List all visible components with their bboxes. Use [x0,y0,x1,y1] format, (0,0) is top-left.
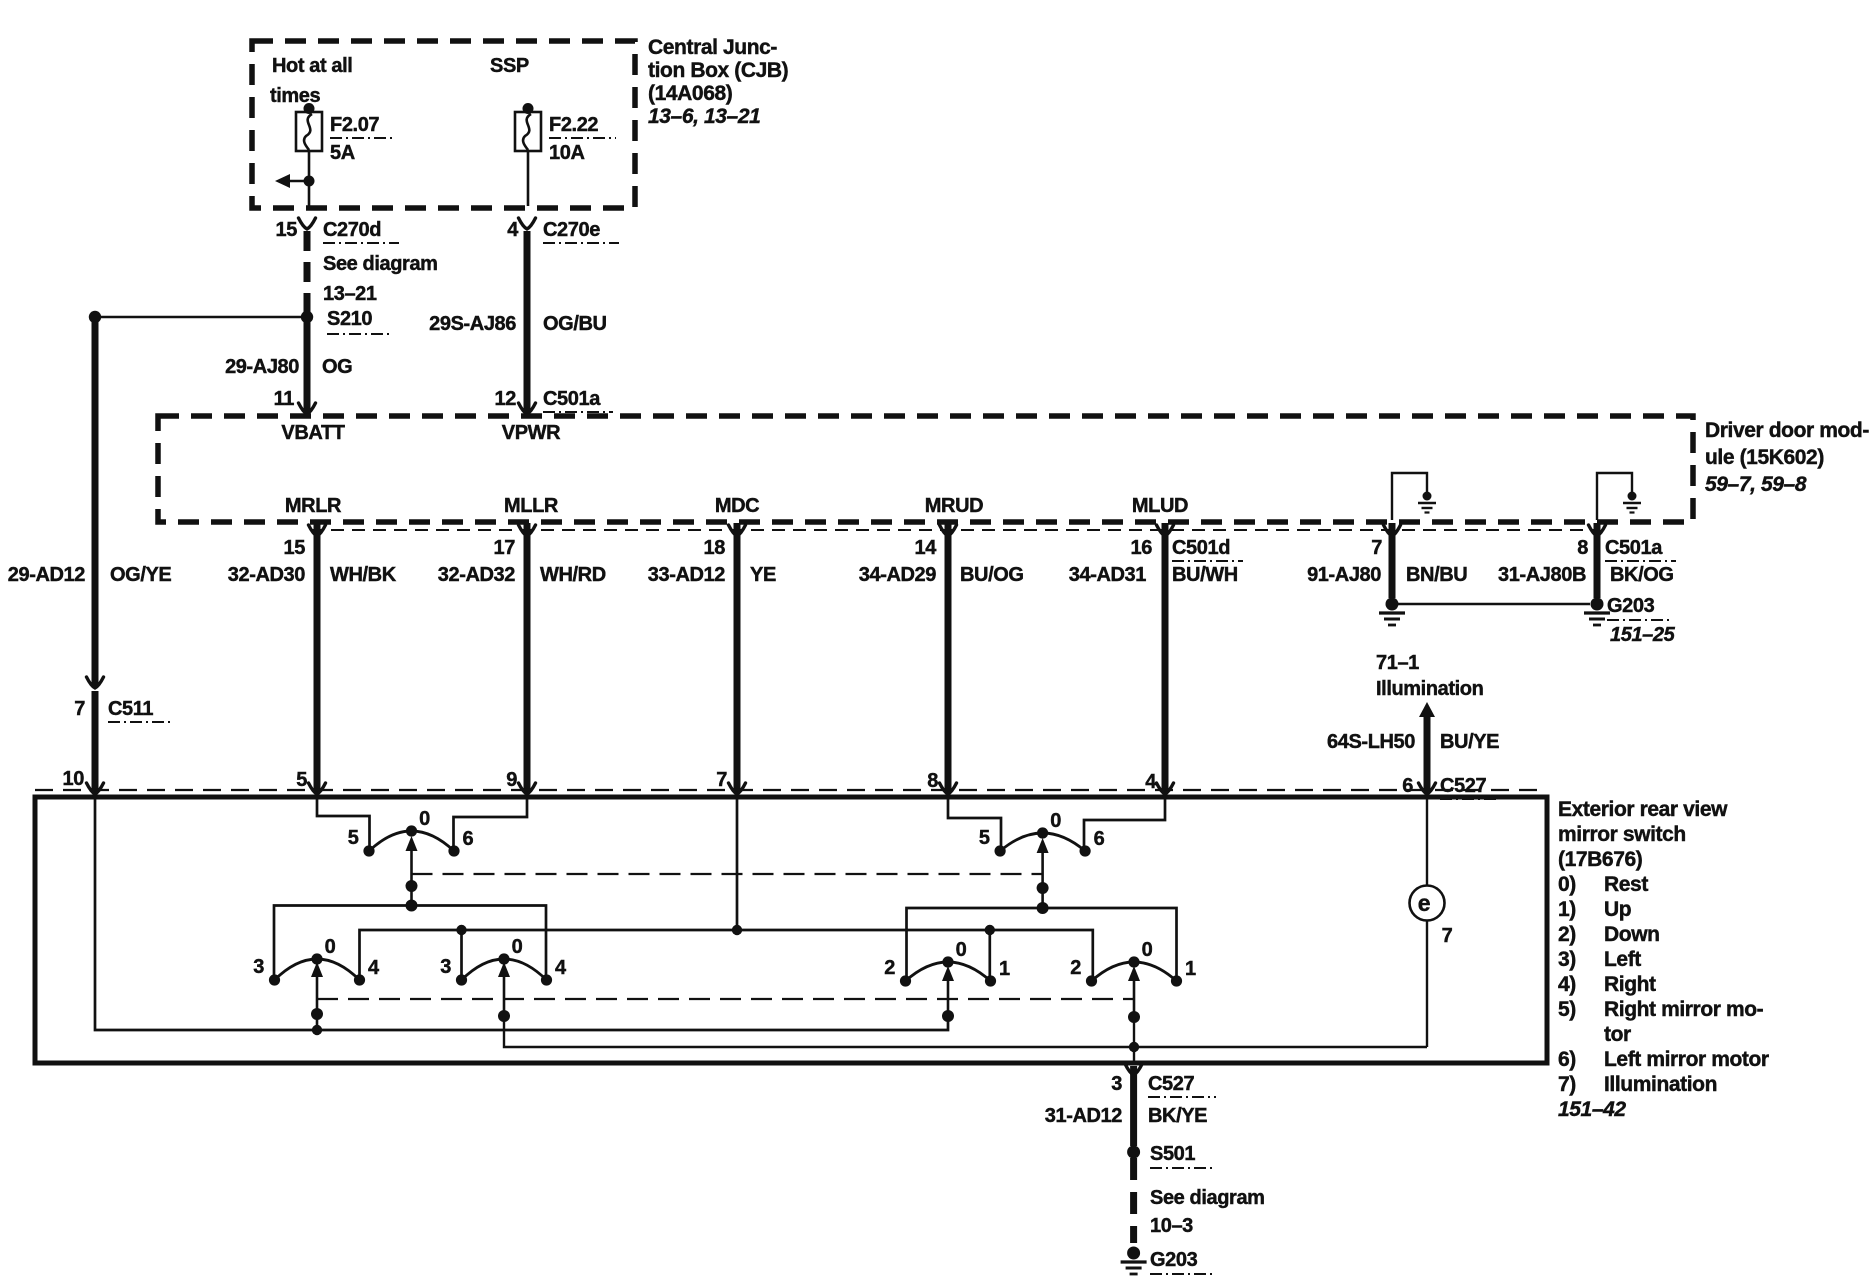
splice S501 [1127,1146,1140,1159]
label G203 bottom [1150,1249,1216,1274]
label Driver door module 15K602 [1705,419,1869,496]
svg-text:151–42: 151–42 [1558,1098,1626,1121]
svg-text:29-AJ80: 29-AJ80 [225,356,299,378]
ground symbol inside module right [1623,492,1641,513]
svg-text:3: 3 [440,956,451,978]
svg-text:59–7, 59–8: 59–7, 59–8 [1705,473,1807,496]
svg-text:BU/YE: BU/YE [1440,731,1499,753]
switch pin 9 [506,769,535,794]
module pin label VPWR [502,422,561,444]
pin 11 VBATT entry [274,388,316,414]
svg-text:BK/YE: BK/YE [1148,1105,1207,1127]
pivot node switch B [498,1010,510,1022]
svg-text:32-AD30: 32-AD30 [228,564,306,586]
connector C270d pin 15 [276,218,399,243]
pin 6 connector C527 [1402,775,1500,799]
svg-text:0: 0 [956,939,967,961]
node bus to switch C contact 1 [985,925,995,935]
pivot node right selector [1037,882,1049,894]
switch pin 6 [1419,783,1436,794]
svg-text:Driver door mod-: Driver door mod- [1705,419,1869,442]
switch pin 5 [296,769,325,794]
node bus to MDC wire [732,925,742,935]
svg-text:8: 8 [1577,537,1588,559]
label 32-AD30 WH/BK [228,564,397,586]
wire MRLR pin15 to switch pin5 [314,523,321,793]
bracket right mirror pair [907,908,1177,980]
wire fuse F2.22 down [527,151,530,206]
svg-text:S501: S501 [1150,1143,1195,1165]
wire pin8 to ground [1594,523,1601,598]
svg-text:(17B676): (17B676) [1558,848,1642,871]
ground symbol inside module left [1418,492,1436,513]
svg-text:tor: tor [1604,1023,1631,1046]
illumination lamp [1410,797,1445,1047]
svg-text:7): 7) [1558,1073,1576,1096]
svg-text:10–3: 10–3 [1150,1215,1193,1237]
svg-text:Central Junc-: Central Junc- [648,36,777,59]
svg-text:8: 8 [927,770,938,792]
svg-text:SSP: SSP [490,55,529,77]
svg-text:3: 3 [1111,1073,1122,1095]
svg-text:Right mirror mo-: Right mirror mo- [1604,998,1764,1021]
module pin label MRUD [925,495,983,517]
svg-text:5): 5) [1558,998,1576,1021]
svg-text:16: 16 [1131,537,1153,559]
svg-text:15: 15 [276,219,298,241]
wire pin8 to right selector contact 5 [948,797,1001,846]
svg-text:BN/BU: BN/BU [1406,564,1467,586]
svg-text:71–1: 71–1 [1376,652,1419,674]
svg-text:C270e: C270e [543,219,600,241]
svg-text:11: 11 [274,388,295,410]
svg-text:2): 2) [1558,923,1576,946]
svg-text:VPWR: VPWR [502,422,561,444]
svg-text:BK/OG: BK/OG [1610,564,1674,586]
svg-text:29-AD12: 29-AD12 [8,564,86,586]
pin 15 MRLR exit [284,525,326,559]
svg-text:C501a: C501a [1605,537,1663,559]
wire switch A to bus A [316,1014,319,1030]
svg-text:Down: Down [1604,923,1660,946]
svg-text:1: 1 [1185,958,1196,980]
node bus B to pin 3 [1129,1042,1139,1052]
svg-text:F2.22: F2.22 [549,114,598,136]
node left branch corner [89,311,101,323]
label G203 151-25 [1607,595,1676,646]
svg-text:1: 1 [999,958,1010,980]
label lamp pin 7 [1442,925,1453,947]
label 31-AJ80B BK/OG [1498,564,1674,586]
label See diagram 13-21 [323,253,438,305]
label Exterior rear view mirror switch legend [1558,798,1769,1121]
svg-text:MLUD: MLUD [1132,495,1188,517]
svg-text:3: 3 [253,956,264,978]
module pin label MLLR [504,495,559,517]
svg-text:Up: Up [1604,898,1631,921]
svg-text:10A: 10A [549,142,585,164]
svg-text:7: 7 [716,769,727,791]
svg-text:7: 7 [1442,925,1453,947]
wire fuse F2.07 down [308,151,311,206]
svg-text:32-AD32: 32-AD32 [438,564,516,586]
wire right selector to bracket [1041,888,1044,908]
svg-text:VBATT: VBATT [281,422,344,444]
svg-text:10: 10 [63,768,85,790]
svg-text:Illumination: Illumination [1376,678,1483,700]
svg-text:Left: Left [1604,948,1641,971]
label 31-AD12 BK/YE [1045,1105,1207,1127]
ground G203 right [1584,598,1610,626]
wire pin9 to left selector contact 6 [454,797,528,846]
connector C527 pin 3 exit [1111,1064,1216,1097]
up-down switch C 2-0-1 [884,939,1010,1016]
selector switch left 5-0-6 [348,808,474,886]
label 34-AD29 BU/OG [859,564,1024,586]
fuse F2.22 [515,103,541,151]
label 34-AD31 BU/WH [1069,564,1238,586]
ground hook inside module left [1392,473,1427,520]
svg-text:5: 5 [348,827,359,849]
svg-text:13–6, 13–21: 13–6, 13–21 [648,105,760,128]
pin 18 MDC exit [704,525,746,559]
svg-text:F2.07: F2.07 [330,114,379,136]
wire C270e to pin 12 [524,231,531,413]
junction box CJB (14A068) dashed enclosure [252,41,635,208]
wire S210 to pin 11 [304,317,311,413]
splice S210 [301,311,313,323]
svg-text:S210: S210 [327,308,372,330]
label 91-AJ80 BN/BU [1307,564,1467,586]
svg-text:OG/YE: OG/YE [110,564,171,586]
svg-text:12: 12 [495,388,517,410]
svg-text:See diagram: See diagram [323,253,438,275]
svg-text:mirror switch: mirror switch [1558,823,1686,846]
svg-text:34-AD29: 34-AD29 [859,564,937,586]
svg-text:Rest: Rest [1604,873,1648,896]
left-right switch B 3-0-4 [440,936,567,1016]
wire bus down to switch B contact 3 [460,930,463,978]
label 29S-AJ86 OG/BU [429,313,606,335]
driver door module dashed enclosure [158,416,1693,522]
svg-text:3): 3) [1558,948,1576,971]
svg-text:5: 5 [979,827,990,849]
svg-text:0: 0 [1142,939,1153,961]
svg-text:6: 6 [1402,775,1413,797]
svg-text:OG/BU: OG/BU [543,313,607,335]
pivot node switch D [1128,1011,1140,1023]
svg-text:29S-AJ86: 29S-AJ86 [429,313,516,335]
svg-text:0: 0 [1050,810,1061,832]
wire MRUD pin14 to switch pin8 [945,523,952,793]
svg-text:34-AD31: 34-AD31 [1069,564,1147,586]
svg-text:4: 4 [507,219,519,241]
label Hot at all times [270,55,352,107]
svg-text:C527: C527 [1148,1073,1194,1095]
svg-text:C527: C527 [1440,775,1486,797]
svg-text:2: 2 [1070,957,1081,979]
svg-text:0): 0) [1558,873,1576,896]
pin 16 MLUD exit connector C501d [1131,525,1243,561]
wire MLLR pin17 to switch pin9 [524,523,531,793]
svg-text:times: times [270,85,321,107]
svg-text:Hot at all: Hot at all [272,55,352,77]
wire C270d to S210 (dashed) [304,231,311,315]
common bus MDC [360,930,1093,980]
svg-text:0: 0 [512,936,523,958]
svg-text:Illumination: Illumination [1604,1073,1717,1096]
svg-text:5: 5 [296,769,307,791]
svg-text:WH/RD: WH/RD [540,564,606,586]
up-down switch D 2-0-1 [1070,939,1196,1017]
wire S210 branch down to C511 [92,317,99,686]
svg-text:33-AD12: 33-AD12 [648,564,726,586]
svg-text:7: 7 [1371,537,1382,559]
wire between grounds [1398,603,1590,605]
svg-text:6: 6 [463,828,474,850]
svg-text:7: 7 [74,698,85,720]
svg-text:91-AJ80: 91-AJ80 [1307,564,1381,586]
svg-text:Exterior rear view: Exterior rear view [1558,798,1728,821]
pin 7 ground exit [1371,525,1400,559]
svg-text:4: 4 [368,957,380,979]
switch pin 10 [63,768,104,794]
svg-text:18: 18 [704,537,726,559]
svg-text:MRUD: MRUD [925,495,983,517]
svg-text:4: 4 [555,957,567,979]
label F2.07 5A [330,114,396,164]
ground G203 bottom [1121,1247,1147,1275]
svg-text:YE: YE [750,564,776,586]
wire bus down to switch C contact 1 [988,930,991,979]
wire pin7 to ground [1389,523,1396,598]
svg-text:MDC: MDC [715,495,759,517]
label 64S-LH50 BU/YE [1327,731,1499,753]
mechanical link lower switches (dashed) [317,998,1134,1000]
node bus to switch B contact 3 [456,925,466,935]
svg-text:MLLR: MLLR [504,495,559,517]
connector C270e pin 4 [507,218,619,243]
switch pin 8 [927,770,956,794]
ground G203 left [1379,598,1405,626]
pin 17 MLLR exit [494,525,536,559]
switch pin 7 [716,769,745,794]
svg-text:G203: G203 [1607,595,1655,617]
wire MLUD pin16 to switch pin4 [1162,523,1169,793]
label 33-AD12 YE [648,564,776,586]
bracket left mirror pair [274,906,546,979]
svg-text:14: 14 [915,537,938,559]
svg-text:C501d: C501d [1172,537,1230,559]
svg-text:1): 1) [1558,898,1576,921]
wire switch D to pin 3 exit [1133,1017,1135,1063]
svg-text:WH/BK: WH/BK [330,564,397,586]
label 29-AJ80 OG [225,356,352,378]
wire left selector to bracket [410,886,413,906]
svg-text:ule (15K602): ule (15K602) [1705,446,1824,469]
wire S210 branch left [95,316,307,318]
label 71-1 Illumination [1376,652,1483,700]
module pin label MDC [715,495,759,517]
ground hook inside module right [1597,473,1632,520]
svg-text:5A: 5A [330,142,355,164]
node junction below F2.07 [304,176,315,187]
svg-text:31-AJ80B: 31-AJ80B [1498,564,1586,586]
wire pin4 to right selector contact 6 [1084,797,1165,846]
pin 12 connector C501a [495,388,613,414]
fuse F2.07 [296,103,322,151]
svg-text:64S-LH50: 64S-LH50 [1327,731,1415,753]
svg-text:151–25: 151–25 [1610,624,1676,646]
svg-text:2: 2 [884,957,895,979]
label SSP [490,55,529,77]
svg-text:BU/OG: BU/OG [960,564,1024,586]
svg-text:0: 0 [325,936,336,958]
pin 14 MRUD exit [915,525,957,559]
pivot node switch A [311,1008,323,1020]
svg-text:(14A068): (14A068) [648,82,732,105]
svg-text:6: 6 [1094,828,1105,850]
mechanical link selectors (dashed) [412,873,1043,875]
module pin label MLUD [1132,495,1188,517]
arrow feed to other circuits [275,174,309,188]
svg-text:G203: G203 [1150,1249,1198,1271]
svg-text:C511: C511 [108,698,153,720]
label F2.22 10A [549,114,616,164]
wire pin3 to S501 [1130,1066,1137,1146]
pivot node switch C [942,1010,954,1022]
wire MDC pin18 to switch pin7 [734,523,741,793]
connector C511 pin 7 [74,677,172,722]
selector switch right 5-0-6 [979,810,1105,888]
node bracket to right selector [1037,902,1049,914]
svg-text:15: 15 [284,537,306,559]
svg-text:13–21: 13–21 [323,283,377,305]
label 29-AD12 OG/YE [8,564,172,586]
svg-text:C270d: C270d [323,219,381,241]
wire pin5 to left selector contact 5 [317,797,370,846]
svg-text:e: e [1418,890,1430,916]
arrow from illumination circuit [1419,702,1435,793]
svg-text:0: 0 [419,808,430,830]
exterior mirror switch enclosure [35,797,1547,1063]
svg-text:See diagram: See diagram [1150,1187,1265,1209]
wire pin10 to bus A [95,797,948,1030]
svg-text:4): 4) [1558,973,1576,996]
node bracket to left selector [406,900,418,912]
wire S501 to G203 (dashed) [1130,1158,1137,1243]
switch pin 4 [1145,771,1173,794]
svg-text:OG: OG [322,356,352,378]
left-right switch A 3-0-4 [253,936,380,1014]
svg-text:9: 9 [506,769,517,791]
node bus A to left LR switch [312,1025,322,1035]
svg-text:C501a: C501a [543,388,601,410]
svg-text:MRLR: MRLR [285,495,342,517]
label See diagram 10-3 [1150,1187,1265,1237]
wire pin7 MDC down to common bus [736,797,739,930]
svg-text:17: 17 [494,537,516,559]
connector line C501 under module [310,529,1600,531]
wire C511 to switch pin10 [92,691,99,792]
svg-text:BU/WH: BU/WH [1172,564,1238,586]
pivot node left selector [406,880,418,892]
svg-text:Left mirror motor: Left mirror motor [1604,1048,1769,1071]
label 32-AD32 WH/RD [438,564,606,586]
module pin label VBATT [281,422,344,444]
label Central Junction Box [648,36,788,128]
wire switch B to bus B [504,1016,1427,1047]
svg-text:6): 6) [1558,1048,1576,1071]
svg-text:tion Box (CJB): tion Box (CJB) [648,59,788,82]
pin 8 ground exit connector C501a [1577,525,1676,561]
label S210 [327,308,392,334]
connector line C527 along switch top [35,789,1547,791]
svg-text:Right: Right [1604,973,1656,996]
svg-text:31-AD12: 31-AD12 [1045,1105,1123,1127]
module pin label MRLR [285,495,342,517]
label S501 [1150,1143,1212,1168]
